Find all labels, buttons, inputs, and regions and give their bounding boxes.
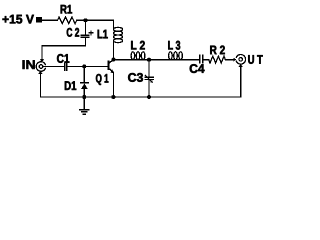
connector IN outer shell bbox=[36, 62, 45, 72]
power terminal square bbox=[36, 17, 42, 22]
wire L1 bottom to collector node bbox=[112, 43, 114, 60]
wire main rail collector to C4 bbox=[113, 59, 199, 61]
label R2 bbox=[210, 46, 225, 55]
wire C1 to Q1 base bbox=[67, 66, 108, 68]
connector OUT inner pin bbox=[239, 58, 243, 62]
arrow into IN connector top bbox=[40, 59, 44, 62]
label D1 bbox=[65, 81, 76, 90]
wire Q1 emitter down bbox=[112, 73, 114, 97]
diode D1 bbox=[81, 83, 88, 90]
junction node L2/L3/C3 bbox=[147, 58, 151, 62]
label R1 bbox=[61, 5, 72, 14]
label C4 bbox=[190, 64, 205, 73]
wire R2 to OUT bbox=[225, 59, 234, 61]
connector OUT outer shell bbox=[236, 55, 245, 65]
junction node base wire / D1 bbox=[82, 64, 86, 68]
C2 plus sign bbox=[89, 31, 93, 35]
capacitor C1 bbox=[65, 63, 67, 70]
label L1 bbox=[98, 30, 108, 39]
arrow into IN connector bottom bbox=[38, 71, 42, 74]
junction node top rail / C2 bbox=[84, 18, 88, 22]
inductor L3 bbox=[169, 52, 183, 60]
connector IN inner pin bbox=[39, 65, 43, 69]
wire OUT shield down bbox=[240, 67, 242, 97]
wire corner down to L1 bbox=[112, 20, 114, 27]
junction node rail / C3 bbox=[147, 95, 151, 99]
inductor L2 bbox=[131, 52, 145, 60]
wire C3 bottom stub bbox=[148, 80, 150, 98]
label IN bbox=[23, 60, 35, 69]
junction node rail / D1-ground bbox=[82, 95, 86, 99]
wire C2 return vertical to IN shield bbox=[41, 46, 43, 60]
capacitor C2 bbox=[81, 35, 89, 37]
transistor Q1 base bar bbox=[107, 61, 109, 71]
label C2 bbox=[67, 28, 79, 37]
label C1 bbox=[57, 54, 69, 63]
wire ground rail bbox=[40, 96, 240, 98]
label L2 bbox=[131, 41, 145, 50]
transistor Q1 emitter arrow bbox=[110, 70, 114, 74]
label L3 bbox=[168, 41, 180, 50]
wire C2 bottom stub bbox=[85, 37, 87, 45]
ground bbox=[80, 110, 89, 114]
capacitor C3 (variable) bbox=[145, 77, 153, 79]
resistor R2 bbox=[209, 56, 226, 63]
wire +15V to R1 bbox=[42, 19, 58, 21]
wire IN shield down bbox=[39, 74, 41, 97]
wire C4 to R2 bbox=[203, 59, 209, 61]
arrow into OUT connector bottom bbox=[239, 64, 243, 67]
wire D1 bottom stub bbox=[83, 89, 85, 97]
wire C2 return horizontal bbox=[42, 45, 86, 47]
junction node rail / emitter bbox=[111, 95, 115, 99]
inductor L1 bbox=[113, 27, 122, 42]
arrow into OUT connector left bbox=[233, 58, 236, 62]
capacitor C4 bbox=[200, 55, 203, 62]
wire R1 to top corner bbox=[77, 19, 114, 21]
wire C2 top stub bbox=[85, 20, 87, 35]
resistor R1 bbox=[58, 17, 77, 24]
wire IN center to C1 bbox=[43, 66, 65, 68]
collector node junction bbox=[111, 58, 115, 62]
label +15V bbox=[3, 15, 34, 24]
transistor Q1 collector lead bbox=[109, 59, 114, 63]
C3 trimmer arrow bbox=[145, 75, 151, 81]
label UT bbox=[248, 55, 262, 64]
ground stem bbox=[83, 97, 85, 110]
label Q1 bbox=[96, 74, 108, 85]
wire C3 top stub bbox=[148, 60, 150, 77]
wire D1 top stub bbox=[83, 67, 85, 83]
transistor Q1 emitter lead bbox=[109, 69, 112, 72]
label C3 bbox=[128, 73, 143, 82]
